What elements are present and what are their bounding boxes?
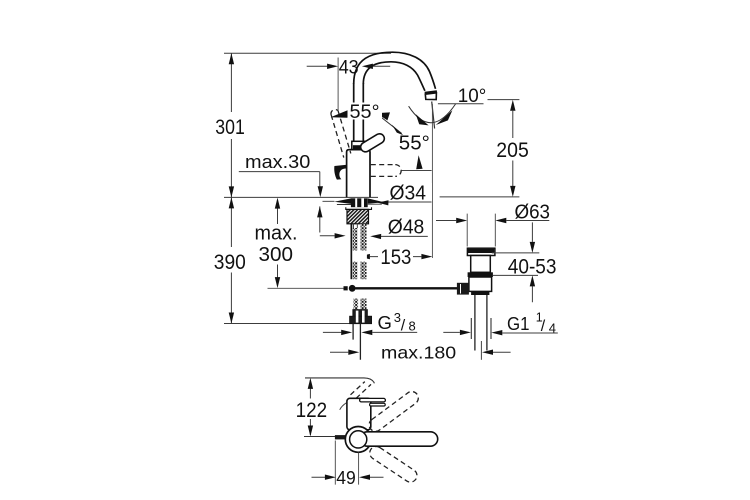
dimension O63: [436, 220, 549, 222]
spout inner curve: [363, 62, 425, 91]
svg-text:Ø34: Ø34: [390, 183, 427, 205]
plan spout bar: [360, 398, 386, 402]
plan top extension line with hook: [305, 378, 374, 383]
svg-text:max.30: max.30: [245, 151, 310, 172]
dimension 390 arrow up: [229, 197, 234, 208]
black hook mark on body left: [334, 165, 347, 180]
dimension 153: [370, 256, 422, 258]
dimension 301 vertical line: [230, 53, 232, 197]
spout swivel arc: [409, 104, 456, 123]
drain seal band: [468, 272, 493, 277]
max.300 arrow up: [275, 198, 280, 209]
aerator band 2: [425, 93, 436, 100]
faucet riser tube: [354, 83, 364, 142]
svg-text:301: 301: [215, 116, 245, 139]
svg-text:8: 8: [409, 319, 416, 334]
svg-text:40-53: 40-53: [508, 255, 557, 279]
label 55 deg first: [348, 103, 383, 120]
drain linkage knob: [457, 283, 469, 295]
svg-text:max.: max.: [255, 223, 298, 245]
dimension max.300 vertical line: [277, 209, 279, 278]
dimension 390 arrow down: [229, 313, 234, 324]
dashed horizontal lever: [371, 165, 401, 177]
solid lever handle: [359, 132, 386, 154]
escutcheon right wedge: [368, 198, 385, 203]
dimension 122: [309, 380, 311, 435]
plan tab left of boss: [335, 435, 348, 439]
dimension G1 1/4: [443, 331, 558, 334]
dimension G3/8: [323, 331, 417, 333]
plan faucet body: [347, 398, 371, 430]
drain flange: [467, 248, 495, 255]
dimension 390 vertical line: [230, 197, 232, 323]
dimension 49: [335, 441, 358, 485]
svg-text:Ø48: Ø48: [388, 217, 425, 239]
dimension 43 line and arrows: [307, 65, 391, 67]
svg-text:/: /: [541, 318, 546, 335]
dimension 301 arrow up: [229, 53, 234, 64]
svg-text:153: 153: [380, 246, 411, 269]
angle arc across solid lever: [378, 115, 402, 134]
faucet body: [347, 150, 370, 198]
threaded shank: [347, 209, 369, 223]
escutcheon lower step: [346, 207, 372, 209]
10 deg leader line: [438, 100, 520, 104]
supply hose lower braid: [354, 299, 359, 310]
svg-text:Ø63: Ø63: [515, 201, 551, 223]
top reference line (spout apex level): [224, 52, 391, 54]
pull rod extension line: [268, 287, 344, 289]
deck line right: [440, 196, 520, 198]
plan swivel arc: [340, 399, 358, 410]
escutcheon center block: [351, 198, 368, 207]
dimension O48 leader: [320, 235, 428, 238]
dimension 301 arrow down: [229, 186, 234, 197]
svg-text:max.180: max.180: [381, 343, 456, 363]
collar notch: [353, 145, 362, 149]
plan handle boss inner circle: [350, 431, 367, 448]
svg-text:300: 300: [259, 244, 294, 266]
dashed raised lever: [331, 110, 351, 158]
swivel arc wedge right: [436, 110, 453, 125]
pull rod: [356, 287, 458, 289]
deck line left: [224, 196, 378, 198]
dimension 40-53: [492, 222, 540, 302]
O34 underline leader: [382, 201, 432, 203]
label O34: [384, 183, 432, 202]
escutcheon thin lines: [323, 201, 382, 204]
plan bottom extension line: [304, 436, 342, 438]
drain tail pipe: [471, 318, 491, 339]
escutcheon left wedge: [334, 198, 351, 204]
supply pipe: [353, 324, 360, 360]
pull rod knob: [344, 286, 348, 290]
drain upper body: [471, 256, 491, 273]
svg-text:122: 122: [296, 399, 328, 422]
svg-text:G: G: [378, 312, 392, 333]
leader from dashed lever to outlet line: [402, 170, 432, 172]
max.30 arrow up below deck: [319, 206, 321, 232]
svg-text:390: 390: [214, 250, 246, 274]
svg-text:4: 4: [549, 321, 556, 336]
max.300 arrow down: [275, 277, 280, 288]
svg-text:55°: 55°: [350, 102, 380, 123]
svg-text:205: 205: [496, 139, 529, 162]
svg-text:/: /: [401, 318, 406, 335]
supply hose upper braid: [350, 224, 352, 279]
plan dashed lever up-right: [367, 389, 421, 434]
dimension max.180: [330, 351, 511, 353]
plan dashed lever down-right: [367, 444, 419, 485]
plan solid lever: [360, 432, 438, 446]
angle wedge at raised lever: [331, 110, 349, 118]
dimension 43 extension line: [337, 58, 339, 112]
spout outlet vertical reference line: [431, 104, 433, 258]
svg-text:55°: 55°: [399, 133, 430, 155]
svg-text:49: 49: [336, 467, 356, 488]
swivel arc wedge left: [416, 114, 429, 125]
cartridge collar: [352, 141, 367, 149]
drain nut: [469, 277, 492, 291]
dimension 205 vertical line: [512, 111, 514, 186]
max.30 arrow down: [318, 186, 323, 197]
plan handle boss outer circle: [345, 427, 371, 453]
angle wedge below 55deg right: [416, 155, 422, 169]
svg-text:43: 43: [339, 58, 359, 79]
svg-text:G1: G1: [507, 313, 530, 334]
aerator band 1: [425, 91, 437, 93]
supply connector nut: [353, 310, 368, 317]
spout outer curve: [354, 52, 436, 89]
bottom reference line: [224, 323, 369, 325]
plan dashed swung spout: [351, 382, 372, 399]
water stream 10 deg line: [432, 102, 435, 129]
svg-text:10°: 10°: [458, 86, 487, 107]
max.30 leader line: [239, 172, 320, 187]
